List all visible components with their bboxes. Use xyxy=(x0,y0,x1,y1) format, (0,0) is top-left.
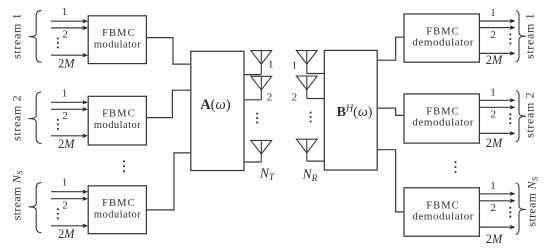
svg-text:2M: 2M xyxy=(486,136,503,150)
svg-text:modulator: modulator xyxy=(94,120,141,131)
output brace group 2 xyxy=(516,91,526,142)
output brace group 1 xyxy=(516,11,526,62)
svg-text:NR: NR xyxy=(302,167,318,184)
svg-text:stream 2: stream 2 xyxy=(10,95,24,141)
svg-text:stream NS: stream NS xyxy=(524,176,539,226)
RX antenna 2 xyxy=(296,76,317,90)
input dots group 1 xyxy=(57,37,59,39)
wire modulator1 to A xyxy=(146,38,190,65)
FBMC modulator box 1 xyxy=(88,16,146,64)
input arrow 2 group 1 xyxy=(51,27,83,29)
svg-text:2: 2 xyxy=(62,29,68,41)
FBMC modulator box 3 xyxy=(88,186,146,234)
svg-text:1: 1 xyxy=(268,59,274,71)
dots between demodulators 2 and 3 xyxy=(454,161,456,163)
input arrow 2M group 3 xyxy=(51,225,83,227)
svg-text:1: 1 xyxy=(62,177,68,189)
svg-text:2: 2 xyxy=(491,29,497,41)
output brace group 3 xyxy=(516,183,526,234)
output arrow 1 group 3 xyxy=(479,193,510,195)
TX antenna 2 xyxy=(251,76,272,90)
svg-text:stream 1: stream 1 xyxy=(523,13,537,59)
output dots group 2 xyxy=(509,113,511,115)
RX antenna 1 xyxy=(296,51,317,65)
input arrow 1 group 1 xyxy=(51,20,83,22)
svg-text:2: 2 xyxy=(292,91,298,103)
svg-text:1: 1 xyxy=(62,87,68,99)
svg-text:NT: NT xyxy=(259,166,275,183)
FBMC modulator box 2 xyxy=(88,96,146,145)
wire RX antenna 2 to B xyxy=(307,98,325,100)
TX antenna 3 xyxy=(251,140,272,154)
RX antenna dots xyxy=(310,111,312,113)
output arrow 2M group 3 xyxy=(479,226,510,228)
svg-text:1: 1 xyxy=(490,180,496,192)
svg-text:demodulator: demodulator xyxy=(412,211,474,223)
output arrow 1 group 1 xyxy=(479,20,510,22)
svg-text:stream NS: stream NS xyxy=(10,170,25,220)
input arrow 1 group 3 xyxy=(51,191,83,193)
input dots group 3 xyxy=(57,208,59,210)
RX antenna 3 xyxy=(296,139,317,153)
TX antenna dots xyxy=(256,112,258,114)
svg-text:demodulator: demodulator xyxy=(412,37,474,49)
output arrow 2M group 1 xyxy=(479,52,510,54)
output arrow 2 group 2 xyxy=(479,106,510,108)
svg-text:2M: 2M xyxy=(486,232,503,246)
output arrow 2 group 1 xyxy=(479,27,510,29)
svg-text:modulator: modulator xyxy=(94,209,141,220)
precoder box A(w) xyxy=(191,51,244,170)
wire B to demodulator3 xyxy=(377,150,404,212)
output dots group 1 xyxy=(509,33,511,35)
FBMC demodulator box 2 xyxy=(404,94,479,143)
svg-text:FBMC: FBMC xyxy=(102,28,136,39)
wire modulator3 to A xyxy=(146,153,190,210)
wire B to demodulator2 xyxy=(377,108,404,115)
svg-text:demodulator: demodulator xyxy=(412,117,474,129)
input dots group 2 xyxy=(57,119,59,121)
input arrow 2M group 2 xyxy=(51,135,83,137)
svg-text:2M: 2M xyxy=(58,57,75,71)
svg-text:FBMC: FBMC xyxy=(102,109,136,120)
output dots group 3 xyxy=(509,207,511,209)
svg-text:BH(ω): BH(ω) xyxy=(337,103,373,120)
wire A to TX antenna 2 xyxy=(244,99,261,101)
svg-text:2: 2 xyxy=(267,92,273,104)
wire modulator2 to A xyxy=(146,90,190,117)
svg-text:2M: 2M xyxy=(486,53,503,67)
svg-text:modulator: modulator xyxy=(94,39,141,50)
wire RX antenna 1 to B xyxy=(307,73,325,75)
input brace group 1 xyxy=(29,10,42,62)
equalizer box B^H(w) xyxy=(324,50,377,170)
TX antenna 1 xyxy=(251,51,272,65)
svg-text:A(ω): A(ω) xyxy=(200,97,231,113)
svg-text:stream 2: stream 2 xyxy=(523,92,537,138)
output arrow 2M group 2 xyxy=(479,132,510,134)
output arrow 1 group 2 xyxy=(479,99,510,101)
svg-text:1: 1 xyxy=(62,6,68,18)
wire B to demodulator1 xyxy=(377,37,404,60)
svg-text:FBMC: FBMC xyxy=(102,198,136,209)
input arrow 2 group 3 xyxy=(51,198,83,200)
svg-text:stream 1: stream 1 xyxy=(10,13,24,59)
input brace group 3 xyxy=(29,183,42,233)
dots between modulators 2 and 3 xyxy=(123,160,125,162)
input arrow 2 group 2 xyxy=(51,108,83,110)
svg-text:1: 1 xyxy=(490,7,496,19)
svg-text:2: 2 xyxy=(491,109,497,121)
input arrow 1 group 2 xyxy=(51,101,83,103)
svg-text:2: 2 xyxy=(62,199,68,211)
svg-text:2M: 2M xyxy=(58,137,75,151)
wire A to TX antenna 1 xyxy=(244,74,261,76)
FBMC demodulator box 3 xyxy=(404,188,479,236)
svg-text:2M: 2M xyxy=(58,227,75,241)
wire RX antenna 3 to B xyxy=(307,160,325,162)
svg-text:2: 2 xyxy=(491,202,497,214)
svg-text:2: 2 xyxy=(62,110,68,122)
svg-text:1: 1 xyxy=(292,60,298,72)
input brace group 2 xyxy=(29,92,42,144)
wire A to TX antenna 3 xyxy=(244,161,261,163)
input arrow 2M group 1 xyxy=(51,54,83,56)
FBMC demodulator box 1 xyxy=(404,14,479,62)
output arrow 2 group 3 xyxy=(479,200,510,202)
svg-text:1: 1 xyxy=(490,86,496,98)
